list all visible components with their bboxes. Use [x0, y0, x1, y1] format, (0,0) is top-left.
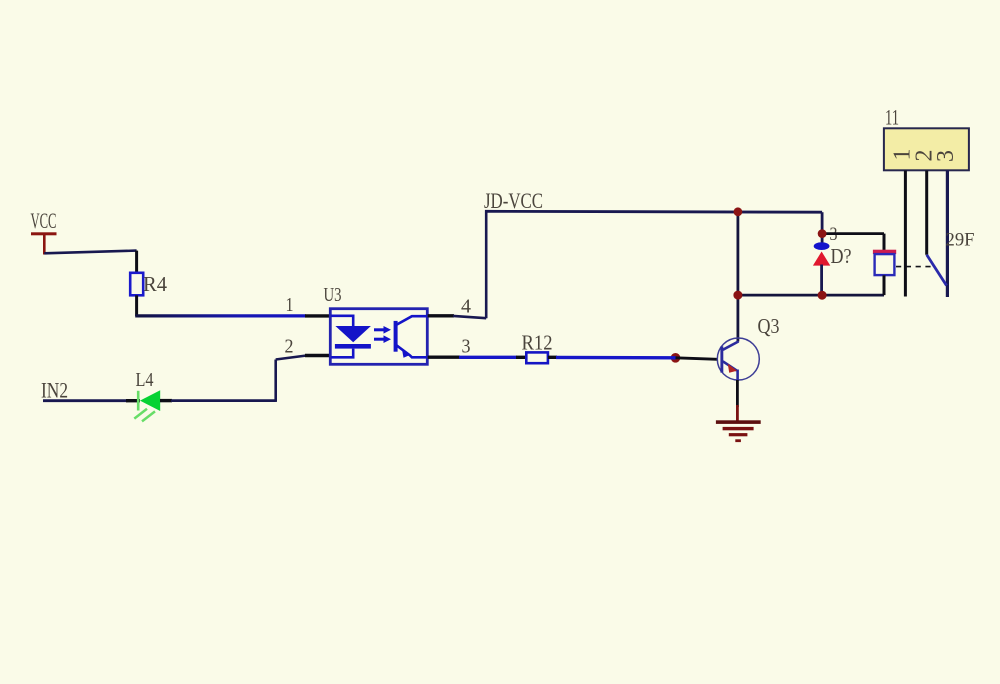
svg-text:Q3: Q3	[758, 314, 780, 338]
svg-text:R12: R12	[522, 331, 553, 355]
svg-text:D?: D?	[831, 244, 852, 268]
svg-text:29F: 29F	[946, 230, 975, 251]
svg-text:2: 2	[285, 336, 294, 358]
svg-text:11: 11	[885, 105, 899, 130]
svg-text:R4: R4	[143, 272, 167, 296]
svg-text:1: 1	[286, 294, 294, 316]
svg-text:3: 3	[933, 150, 959, 162]
svg-text:IN2: IN2	[41, 378, 68, 403]
svg-text:U3: U3	[324, 284, 342, 306]
svg-text:L4: L4	[136, 369, 154, 391]
svg-text:4: 4	[461, 296, 471, 318]
svg-text:JD-VCC: JD-VCC	[484, 188, 543, 213]
svg-text:VCC: VCC	[31, 208, 57, 233]
svg-text:3: 3	[462, 336, 471, 358]
